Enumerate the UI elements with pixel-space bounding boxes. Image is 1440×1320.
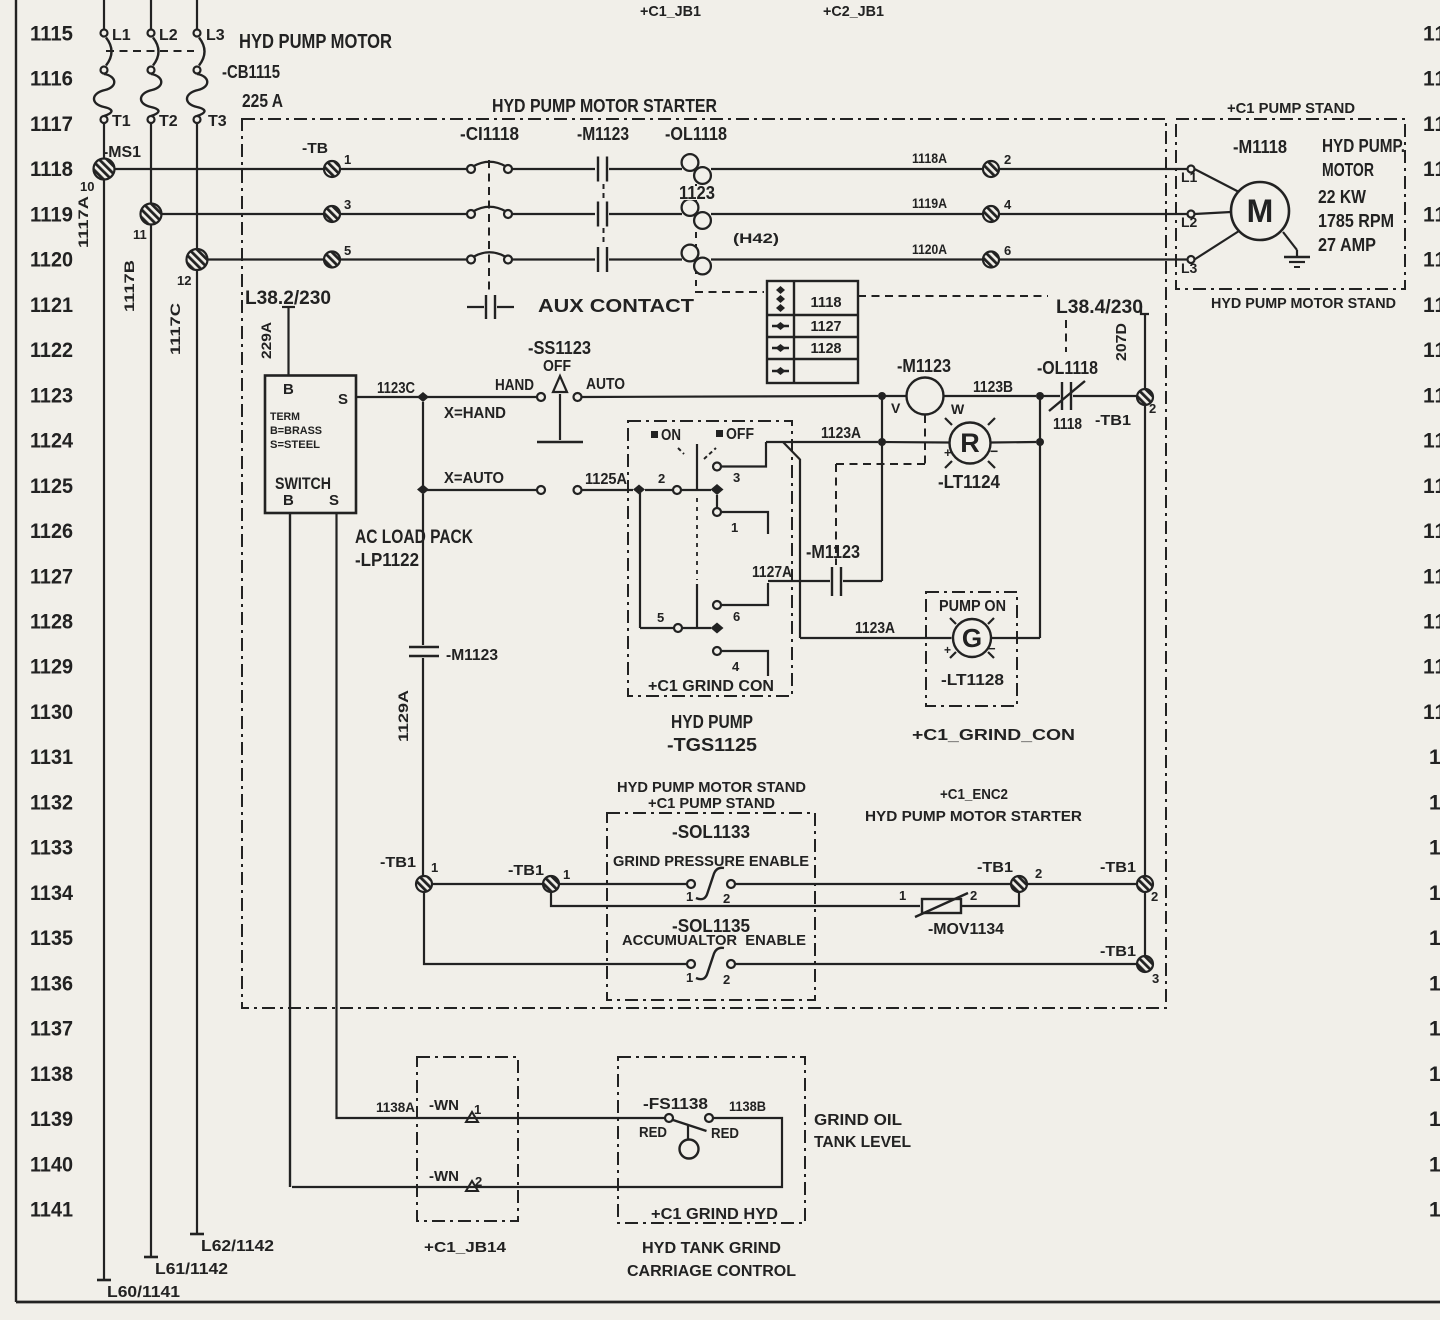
- svg-text:M: M: [1247, 193, 1274, 229]
- svg-text:B: B: [283, 381, 294, 398]
- svg-text:-OL1118: -OL1118: [665, 124, 727, 144]
- svg-text:V: V: [891, 400, 901, 416]
- svg-text:1: 1: [899, 888, 906, 903]
- svg-text:GRIND PRESSURE ENABLE: GRIND PRESSURE ENABLE: [613, 853, 809, 870]
- svg-text:HYD PUMP MOTOR STARTER: HYD PUMP MOTOR STARTER: [865, 808, 1082, 825]
- svg-text:1127A: 1127A: [752, 564, 792, 581]
- svg-text:-LT1128: -LT1128: [941, 672, 1004, 689]
- svg-text:B: B: [283, 492, 294, 509]
- svg-text:1123B: 1123B: [973, 379, 1013, 396]
- svg-text:+C1_GRIND_CON: +C1_GRIND_CON: [912, 727, 1075, 744]
- svg-text:-M1123: -M1123: [897, 356, 951, 376]
- svg-text:1123C: 1123C: [377, 380, 415, 397]
- svg-text:11: 11: [1423, 565, 1440, 588]
- svg-text:PUMP ON: PUMP ON: [939, 598, 1006, 615]
- svg-text:-TB1: -TB1: [380, 854, 416, 871]
- svg-text:HAND: HAND: [495, 377, 534, 394]
- svg-text:1117: 1117: [30, 113, 73, 136]
- svg-text:11: 11: [1423, 158, 1440, 181]
- svg-text:HYD PUMP.: HYD PUMP.: [1322, 136, 1405, 156]
- svg-text:1123: 1123: [679, 183, 715, 203]
- svg-text:+C1 GRIND CON: +C1 GRIND CON: [648, 678, 774, 695]
- svg-text:1120: 1120: [30, 249, 73, 272]
- svg-text:S: S: [338, 391, 348, 408]
- svg-text:-TB1: -TB1: [508, 862, 544, 879]
- svg-text:11: 11: [1423, 520, 1440, 543]
- svg-text:HYD PUMP MOTOR STAND: HYD PUMP MOTOR STAND: [617, 779, 806, 796]
- svg-text:11: 11: [1423, 339, 1440, 362]
- svg-text:1123: 1123: [30, 384, 73, 407]
- svg-text:T2: T2: [159, 113, 178, 130]
- svg-text:1126: 1126: [30, 520, 73, 543]
- svg-text:T1: T1: [112, 113, 131, 130]
- svg-text:-TB: -TB: [302, 140, 328, 157]
- svg-text:6: 6: [1004, 243, 1011, 258]
- svg-text:S=STEEL: S=STEEL: [270, 439, 320, 451]
- svg-text:1: 1: [1429, 927, 1440, 950]
- svg-text:GRIND OIL: GRIND OIL: [814, 1112, 902, 1129]
- svg-text:-CI1118: -CI1118: [460, 124, 519, 144]
- svg-text:1115: 1115: [30, 23, 73, 46]
- svg-text:11: 11: [133, 227, 147, 242]
- svg-text:-WN: -WN: [429, 1097, 459, 1114]
- svg-text:-MOV1134: -MOV1134: [928, 921, 1004, 938]
- svg-text:-M1118: -M1118: [1233, 137, 1287, 157]
- svg-text:T3: T3: [208, 113, 227, 130]
- svg-text:-CB1115: -CB1115: [222, 62, 280, 82]
- svg-text:1117A: 1117A: [75, 196, 91, 248]
- svg-text:1124: 1124: [30, 430, 73, 453]
- svg-text:1133: 1133: [30, 837, 73, 860]
- svg-text:SWITCH: SWITCH: [275, 474, 331, 493]
- svg-text:-LT1124: -LT1124: [938, 472, 1000, 492]
- svg-text:10: 10: [80, 179, 94, 194]
- svg-text:2: 2: [1151, 889, 1158, 904]
- svg-text:2: 2: [723, 891, 730, 906]
- svg-text:+: +: [944, 643, 951, 657]
- svg-text:+C1_JB1: +C1_JB1: [640, 3, 701, 20]
- svg-text:11: 11: [1423, 701, 1440, 724]
- svg-text:L61/1142: L61/1142: [155, 1261, 228, 1278]
- svg-text:MOTOR: MOTOR: [1322, 160, 1374, 180]
- svg-text:11: 11: [1423, 249, 1440, 272]
- svg-text:+C2_JB1: +C2_JB1: [823, 3, 884, 20]
- svg-text:1117C: 1117C: [167, 303, 183, 355]
- svg-text:12: 12: [177, 273, 191, 288]
- svg-text:1: 1: [1429, 791, 1440, 814]
- svg-text:1119A: 1119A: [912, 195, 947, 211]
- svg-text:-SOL1133: -SOL1133: [672, 822, 750, 842]
- svg-text:-TB1: -TB1: [1100, 943, 1136, 960]
- svg-text:L38.2/230: L38.2/230: [245, 288, 331, 309]
- svg-text:L62/1142: L62/1142: [201, 1238, 274, 1255]
- svg-text:HYD PUMP MOTOR STARTER: HYD PUMP MOTOR STARTER: [492, 96, 717, 116]
- svg-text:1: 1: [686, 889, 693, 904]
- svg-text:CARRIAGE CONTROL: CARRIAGE CONTROL: [627, 1263, 796, 1280]
- svg-text:TANK LEVEL: TANK LEVEL: [814, 1134, 911, 1151]
- svg-text:1127: 1127: [30, 565, 73, 588]
- svg-text:AUTO: AUTO: [586, 376, 625, 393]
- svg-text:1128: 1128: [30, 610, 73, 633]
- svg-text:-M1123: -M1123: [577, 124, 629, 144]
- svg-text:HYD PUMP MOTOR: HYD PUMP MOTOR: [239, 31, 392, 53]
- svg-text:RED: RED: [711, 1125, 739, 1142]
- svg-text:+C1 PUMP STAND: +C1 PUMP STAND: [648, 795, 775, 812]
- svg-text:1125: 1125: [30, 475, 73, 498]
- svg-text:3: 3: [733, 470, 740, 485]
- svg-text:OFF: OFF: [543, 358, 571, 375]
- svg-text:L60/1141: L60/1141: [107, 1284, 180, 1301]
- svg-text:AC LOAD PACK: AC LOAD PACK: [355, 527, 473, 548]
- svg-text:1127: 1127: [811, 318, 842, 335]
- svg-text:1: 1: [1429, 837, 1440, 860]
- svg-text:1137: 1137: [30, 1018, 73, 1041]
- svg-text:1132: 1132: [30, 791, 73, 814]
- svg-text:2: 2: [970, 888, 977, 903]
- svg-text:X=AUTO: X=AUTO: [444, 470, 504, 487]
- svg-text:HYD PUMP: HYD PUMP: [671, 712, 753, 732]
- svg-text:1140: 1140: [30, 1153, 73, 1176]
- svg-text:−: −: [988, 641, 996, 656]
- svg-text:11: 11: [1423, 23, 1440, 46]
- svg-text:-TB1: -TB1: [977, 859, 1013, 876]
- svg-text:-MS1: -MS1: [103, 144, 141, 161]
- svg-text:6: 6: [733, 609, 740, 624]
- svg-text:+: +: [944, 445, 952, 460]
- svg-text:4: 4: [1004, 197, 1012, 212]
- svg-text:1131: 1131: [30, 746, 73, 769]
- svg-text:1125A: 1125A: [585, 471, 627, 488]
- svg-text:2: 2: [723, 972, 730, 987]
- svg-text:+C1_ENC2: +C1_ENC2: [940, 786, 1008, 803]
- svg-text:+C1 PUMP STAND: +C1 PUMP STAND: [1227, 100, 1355, 117]
- svg-text:5: 5: [657, 610, 664, 625]
- svg-text:1: 1: [474, 1102, 481, 1117]
- svg-text:1123A: 1123A: [821, 425, 861, 442]
- svg-text:-WN: -WN: [429, 1168, 459, 1185]
- svg-text:11: 11: [1423, 384, 1440, 407]
- svg-text:1: 1: [1429, 1063, 1440, 1086]
- svg-text:1: 1: [1429, 882, 1440, 905]
- svg-text:1: 1: [1429, 972, 1440, 995]
- svg-text:1130: 1130: [30, 701, 73, 724]
- svg-text:L2: L2: [1181, 214, 1198, 230]
- svg-text:1: 1: [344, 152, 351, 167]
- svg-text:1139: 1139: [30, 1108, 73, 1131]
- svg-text:1118: 1118: [30, 158, 73, 181]
- svg-text:HYD TANK GRIND: HYD TANK GRIND: [642, 1240, 781, 1257]
- svg-text:RED: RED: [639, 1124, 667, 1141]
- svg-text:L3: L3: [1181, 260, 1198, 276]
- svg-text:1: 1: [1429, 1018, 1440, 1041]
- svg-text:L1: L1: [112, 27, 131, 44]
- svg-text:1: 1: [563, 867, 570, 882]
- svg-text:AUX CONTACT: AUX CONTACT: [538, 296, 694, 316]
- svg-text:1129A: 1129A: [395, 690, 411, 742]
- svg-text:11: 11: [1423, 610, 1440, 633]
- svg-text:G: G: [962, 623, 982, 653]
- svg-text:L1: L1: [1181, 169, 1198, 185]
- svg-text:1785 RPM: 1785 RPM: [1318, 211, 1394, 231]
- svg-text:1121: 1121: [30, 294, 73, 317]
- svg-text:22 KW: 22 KW: [1318, 187, 1366, 207]
- svg-text:11: 11: [1423, 656, 1440, 679]
- svg-text:11: 11: [1423, 430, 1440, 453]
- svg-text:1118: 1118: [1053, 416, 1082, 433]
- svg-text:11: 11: [1423, 113, 1440, 136]
- svg-text:207D: 207D: [1113, 323, 1130, 361]
- svg-text:11: 11: [1423, 68, 1440, 91]
- svg-text:1: 1: [731, 520, 738, 535]
- svg-text:1138A: 1138A: [376, 1099, 415, 1115]
- svg-text:1117B: 1117B: [121, 260, 137, 312]
- svg-text:3: 3: [344, 197, 351, 212]
- svg-text:-SS1123: -SS1123: [528, 338, 591, 358]
- svg-text:229A: 229A: [258, 322, 274, 359]
- svg-text:ACCUMUALTOR ENABLE: ACCUMUALTOR ENABLE: [622, 932, 806, 949]
- svg-text:1141: 1141: [30, 1198, 73, 1221]
- svg-text:1118A: 1118A: [912, 150, 947, 166]
- svg-text:1138: 1138: [30, 1063, 73, 1086]
- svg-text:(H42): (H42): [733, 230, 779, 246]
- svg-text:B=BRASS: B=BRASS: [270, 425, 322, 437]
- svg-text:TERM: TERM: [270, 411, 300, 423]
- svg-text:225 A: 225 A: [242, 91, 283, 111]
- svg-text:-TGS1125: -TGS1125: [667, 735, 757, 755]
- svg-text:11: 11: [1423, 294, 1440, 317]
- svg-text:1: 1: [431, 860, 438, 875]
- svg-text:+C1_JB14: +C1_JB14: [424, 1239, 507, 1256]
- svg-text:3: 3: [1152, 971, 1159, 986]
- svg-text:1136: 1136: [30, 972, 73, 995]
- svg-text:L2: L2: [159, 27, 178, 44]
- svg-text:R: R: [960, 428, 980, 458]
- svg-text:1116: 1116: [30, 68, 73, 91]
- svg-text:−: −: [990, 443, 998, 459]
- svg-text:+C1 GRIND HYD: +C1 GRIND HYD: [651, 1206, 778, 1223]
- svg-text:HYD PUMP MOTOR STAND: HYD PUMP MOTOR STAND: [1211, 295, 1396, 312]
- svg-text:-M1123: -M1123: [806, 542, 860, 562]
- svg-text:-LP1122: -LP1122: [355, 550, 419, 570]
- svg-text:1123A: 1123A: [855, 620, 895, 637]
- svg-text:4: 4: [732, 659, 740, 674]
- svg-text:1135: 1135: [30, 927, 73, 950]
- svg-text:-TB1: -TB1: [1095, 412, 1131, 429]
- svg-text:2: 2: [658, 471, 665, 486]
- svg-text:1134: 1134: [30, 882, 73, 905]
- svg-text:-TB1: -TB1: [1100, 859, 1136, 876]
- svg-text:5: 5: [344, 243, 351, 258]
- svg-text:-OL1118: -OL1118: [1037, 358, 1098, 378]
- svg-text:X=HAND: X=HAND: [444, 405, 506, 422]
- svg-text:27 AMP: 27 AMP: [1318, 235, 1376, 255]
- svg-text:1119: 1119: [30, 203, 73, 226]
- svg-text:2: 2: [1035, 866, 1042, 881]
- svg-text:-FS1138: -FS1138: [643, 1096, 708, 1113]
- svg-text:1: 1: [1429, 1153, 1440, 1176]
- svg-text:1118: 1118: [811, 294, 842, 311]
- svg-text:ON: ON: [661, 427, 681, 444]
- svg-text:1122: 1122: [30, 339, 73, 362]
- svg-text:OFF: OFF: [726, 426, 754, 443]
- svg-text:1: 1: [1429, 1108, 1440, 1131]
- svg-text:L38.4/230: L38.4/230: [1056, 297, 1143, 318]
- svg-text:1129: 1129: [30, 656, 73, 679]
- svg-text:1120A: 1120A: [912, 241, 947, 257]
- svg-text:L3: L3: [206, 27, 225, 44]
- svg-text:11: 11: [1423, 475, 1440, 498]
- svg-text:11: 11: [1423, 203, 1440, 226]
- svg-text:1: 1: [1429, 1198, 1440, 1221]
- svg-text:2: 2: [1004, 152, 1011, 167]
- svg-text:-M1123: -M1123: [446, 647, 498, 664]
- svg-text:2: 2: [1149, 401, 1156, 416]
- svg-text:1128: 1128: [811, 340, 842, 357]
- svg-text:1: 1: [1429, 746, 1440, 769]
- svg-text:S: S: [329, 492, 339, 509]
- svg-text:W: W: [951, 401, 965, 417]
- svg-text:1: 1: [686, 970, 693, 985]
- svg-text:1138B: 1138B: [729, 1098, 766, 1114]
